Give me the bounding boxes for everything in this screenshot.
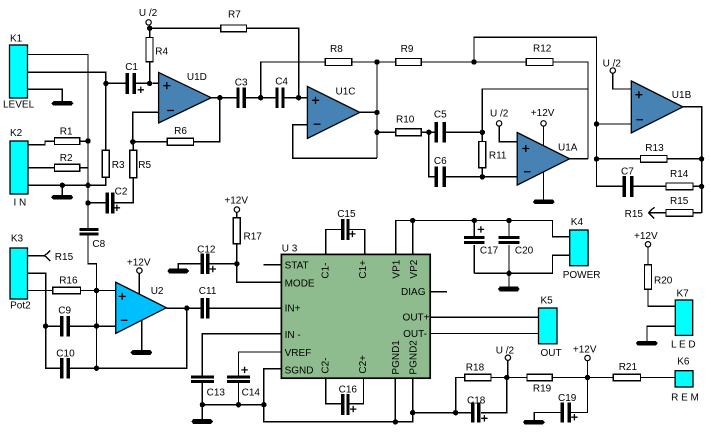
- capacitor C12: [197, 245, 237, 275]
- op-amp U2: [116, 282, 167, 333]
- power +12V U2: [127, 258, 151, 295]
- svg-text:C3: C3: [235, 78, 248, 89]
- wire C13 bottom to ground: [201, 383, 203, 419]
- wire IN- to C13: [202, 334, 281, 376]
- capacitor C7: [621, 167, 634, 197]
- wire R21 to K6: [641, 377, 676, 379]
- resistor R7: [221, 10, 247, 32]
- svg-text:U1D: U1D: [187, 72, 207, 83]
- node R13 left: [594, 156, 599, 161]
- node C1 R4: [147, 81, 152, 86]
- resistor R1: [55, 127, 80, 145]
- svg-text:SGND: SGND: [285, 365, 314, 376]
- svg-text:C16: C16: [339, 385, 358, 396]
- wire C19 left to ground: [534, 413, 560, 420]
- wire R5 bottom to C2: [114, 178, 133, 203]
- wire C6 to U1A minus: [446, 176, 517, 178]
- svg-text:C1-: C1-: [320, 262, 331, 278]
- power +12V U1A: [531, 108, 555, 146]
- svg-text:R12: R12: [533, 44, 552, 55]
- off-page arrow R15: [625, 207, 667, 220]
- wire SGND down: [264, 369, 282, 405]
- ground C12: [167, 269, 189, 274]
- wire top loop to U1B area: [474, 37, 623, 186]
- wire C16 to C2+ pin: [350, 378, 364, 403]
- op-amp U1D: [159, 72, 212, 123]
- svg-text:VP2: VP2: [409, 259, 420, 278]
- svg-text:C2: C2: [115, 187, 128, 198]
- capacitor C18: [467, 396, 488, 423]
- resistor R6: [167, 126, 193, 145]
- capacitor C5: [434, 110, 447, 143]
- node R10 C5 C6: [426, 130, 431, 135]
- capacitor C10: [46, 349, 97, 379]
- resistor R3: [102, 150, 125, 177]
- resistor R17: [233, 218, 262, 244]
- wire C18 node up to R18: [456, 378, 465, 413]
- svg-text:L E D: L E D: [671, 340, 696, 351]
- resistor R13: [641, 143, 667, 162]
- wire R18 to node: [491, 377, 527, 379]
- node R19 R21 C19: [585, 375, 590, 380]
- wire R13 to output column: [667, 158, 702, 160]
- svg-text:C1+: C1+: [358, 260, 369, 279]
- ground K2: [51, 195, 73, 200]
- svg-text:R10: R10: [396, 115, 415, 126]
- wire C6 branch down: [429, 132, 435, 177]
- wire K3 pin1 to R15 link: [28, 255, 45, 257]
- node R8 R9 U1C out: [374, 59, 379, 64]
- resistor R15: [666, 196, 693, 216]
- svg-text:R3: R3: [112, 160, 125, 171]
- svg-text:C17: C17: [480, 246, 499, 257]
- svg-text:C15: C15: [337, 209, 356, 220]
- svg-text:+12V: +12V: [127, 258, 151, 269]
- node R14 right: [699, 184, 704, 189]
- ground U2: [130, 321, 152, 355]
- wire R14 to output column: [693, 185, 702, 187]
- power U/2 top: [139, 8, 158, 25]
- resistor R18: [465, 363, 491, 381]
- svg-text:U1B: U1B: [672, 90, 692, 101]
- wire K1 pin2 to C1 node: [28, 72, 106, 83]
- wire K7 pin2 to ground: [647, 326, 675, 341]
- capacitor C13: [191, 375, 225, 398]
- node bus C2: [85, 200, 90, 205]
- capacitor C15: [337, 209, 356, 240]
- svg-text:K1: K1: [10, 34, 23, 45]
- wire U1A output: [570, 158, 588, 160]
- svg-text:K2: K2: [10, 128, 23, 139]
- wire R4 top to U/2 node: [149, 28, 151, 37]
- svg-text:PGND1: PGND1: [391, 340, 402, 375]
- node C3 C4: [258, 95, 263, 100]
- wire DIAG stub: [430, 291, 447, 293]
- wire C2- pin to C16: [326, 378, 341, 403]
- svg-text:R16: R16: [59, 276, 78, 287]
- wire C14 bottom to rail: [238, 383, 240, 405]
- svg-text:POWER: POWER: [563, 270, 601, 281]
- wire VREF to C14: [239, 352, 282, 375]
- resistor R11: [479, 142, 507, 177]
- wire node to R13: [597, 158, 641, 160]
- node R5 R6 feedback: [130, 139, 135, 144]
- node ground-line stub: [60, 183, 65, 188]
- node U2 output: [184, 305, 189, 310]
- wire cap bottom line to K4 pin2: [474, 255, 569, 273]
- node C9 right: [94, 323, 99, 328]
- node C1 input: [103, 81, 108, 86]
- svg-text:OUT+: OUT+: [403, 313, 430, 324]
- svg-text:STAT: STAT: [285, 260, 309, 271]
- power +12V R17: [224, 196, 248, 218]
- capacitor C11: [199, 286, 217, 318]
- wire R12 to U1A output vertical: [553, 62, 588, 159]
- svg-text:R19: R19: [533, 384, 552, 395]
- svg-text:R14: R14: [670, 169, 689, 180]
- svg-text:C2-: C2-: [320, 357, 331, 373]
- connector K5: [539, 296, 562, 360]
- wire branch to C5 node: [482, 89, 588, 142]
- wire C8 bottom to R16 node: [88, 235, 97, 290]
- op-amp U1B: [631, 81, 691, 133]
- resistor R21: [613, 362, 640, 381]
- node C20 rail: [506, 218, 511, 223]
- wire analog ground rail: [202, 405, 470, 422]
- wire R7 to C4 right node: [247, 28, 299, 97]
- svg-text:C11: C11: [199, 286, 217, 297]
- wire U1D output to C3: [211, 97, 236, 99]
- svg-text:C5: C5: [434, 110, 447, 121]
- op-amp U1A: [517, 133, 578, 186]
- wire K3 pin2 down to C9 left: [28, 273, 61, 368]
- svg-text:R11: R11: [489, 151, 507, 162]
- node C17 rail: [472, 218, 477, 223]
- svg-text:R18: R18: [466, 363, 485, 374]
- node U1B minus junction: [594, 121, 599, 126]
- capacitor C3: [235, 78, 248, 109]
- svg-text:VREF: VREF: [285, 348, 312, 359]
- wire C1- pin to C15: [326, 230, 341, 255]
- node SGND rail: [261, 402, 266, 407]
- svg-text:DIAG: DIAG: [401, 287, 426, 298]
- wire C18 right up to R18 R19 node: [481, 378, 507, 413]
- svg-text:R E M: R E M: [671, 393, 699, 404]
- wire STAT stub: [264, 264, 282, 266]
- wire R16 to U2 plus: [80, 290, 115, 292]
- wire stub to ground K2: [61, 185, 63, 195]
- wire C20 node to ground: [508, 273, 510, 287]
- node C9 left: [43, 323, 48, 328]
- wire C1 node to U1D plus input: [152, 82, 158, 84]
- resistor R5: [130, 142, 152, 178]
- svg-text:OUT-: OUT-: [403, 329, 427, 340]
- svg-text:I N: I N: [14, 198, 27, 209]
- wire node to MODE pin: [237, 264, 282, 282]
- capacitor C20: [499, 221, 534, 274]
- wire R1 to bus: [80, 140, 88, 142]
- svg-text:K7: K7: [677, 289, 690, 300]
- node R17 C12: [234, 261, 239, 266]
- svg-text:IN+: IN+: [285, 304, 301, 315]
- node R9 R12 top loop: [471, 59, 476, 64]
- node C13 bottom rail: [200, 402, 205, 407]
- svg-text:C12: C12: [197, 245, 216, 256]
- wire R15 to output column: [693, 212, 702, 214]
- wire C10 to U2 output: [97, 308, 187, 368]
- svg-text:U /2: U /2: [139, 8, 158, 19]
- capacitor C19: [558, 393, 578, 423]
- svg-text:MODE: MODE: [285, 278, 315, 289]
- node C4 U1C plus: [296, 95, 301, 100]
- power +12V R20: [634, 231, 658, 265]
- wire K1 pin3 to ground: [28, 89, 63, 101]
- wire R19 to R21: [552, 377, 613, 379]
- wire PGND1: [394, 378, 396, 422]
- wire C12 left to ground: [178, 264, 200, 269]
- svg-text:R1: R1: [60, 127, 73, 138]
- wire R10 to C5: [421, 131, 435, 133]
- capacitor C14: [227, 367, 260, 399]
- svg-text:C1: C1: [125, 62, 138, 73]
- svg-text:+12V: +12V: [634, 231, 658, 242]
- svg-text:R5: R5: [138, 160, 151, 171]
- svg-text:U2: U2: [151, 286, 164, 297]
- wire C11 to IN+: [209, 307, 281, 309]
- svg-text:U1C: U1C: [336, 87, 356, 98]
- svg-text:C20: C20: [515, 246, 534, 257]
- wire R6 to U1D output: [194, 98, 220, 142]
- svg-text:R9: R9: [401, 44, 414, 55]
- node R1-bus: [85, 138, 90, 143]
- capacitor C6: [434, 156, 447, 187]
- svg-text:IN -: IN -: [285, 330, 301, 341]
- capacitor C9: [46, 306, 116, 337]
- wire U1D minus input: [133, 112, 159, 141]
- svg-text:R13: R13: [645, 143, 664, 154]
- wire C4 to U1C plus: [285, 97, 308, 99]
- power U/2 U1A: [490, 109, 517, 142]
- capacitor C4: [261, 77, 289, 109]
- svg-text:+12V: +12V: [531, 108, 555, 119]
- node U1D output: [217, 95, 222, 100]
- op-amp U1C: [307, 86, 359, 138]
- power +12V R19: [573, 345, 597, 378]
- connector K1: [3, 34, 35, 111]
- capacitor C2: [88, 187, 128, 214]
- svg-text:R20: R20: [654, 276, 673, 287]
- node U1C output: [374, 110, 379, 115]
- wire U1C output vertical: [376, 62, 378, 158]
- svg-text:R6: R6: [174, 126, 187, 137]
- svg-text:K3: K3: [11, 234, 24, 245]
- node VP2 rail: [410, 218, 415, 223]
- connector K4: [563, 217, 601, 281]
- node R18 R19: [504, 375, 509, 380]
- wire node to R10: [377, 131, 396, 133]
- svg-text:C19: C19: [558, 393, 577, 404]
- node R10 branch: [374, 130, 379, 135]
- connector K6: [671, 357, 699, 404]
- node C10 right: [94, 366, 99, 371]
- wire R8 to R9: [352, 61, 396, 63]
- capacitor C8: [80, 228, 106, 250]
- svg-text:C8: C8: [92, 239, 105, 250]
- connector K7: [671, 289, 696, 351]
- resistor R4: [146, 37, 169, 61]
- ground C19: [523, 420, 545, 425]
- node C18 left: [453, 410, 458, 415]
- node C14 rail: [236, 402, 241, 407]
- power U/2 U1B: [603, 59, 632, 90]
- wire feedback node to R6: [133, 141, 168, 143]
- svg-text:+12V: +12V: [573, 345, 597, 356]
- wire U2 output to C11: [166, 307, 200, 309]
- wire U/2 node to R7: [150, 27, 221, 29]
- svg-text:C14: C14: [242, 388, 261, 399]
- resistor R2: [55, 153, 80, 171]
- svg-text:R15: R15: [670, 196, 689, 207]
- wire to U1B minus: [597, 123, 632, 125]
- svg-text:U 3: U 3: [282, 244, 298, 255]
- svg-text:R2: R2: [60, 153, 73, 164]
- ground C20: [498, 287, 520, 292]
- svg-text:C10: C10: [56, 349, 75, 360]
- svg-text:C4: C4: [275, 77, 288, 88]
- svg-text:K6: K6: [677, 357, 690, 368]
- node bus ground-line: [85, 183, 90, 188]
- svg-text:R15: R15: [55, 252, 74, 263]
- svg-text:R17: R17: [244, 232, 263, 243]
- wire R9 to R12: [421, 61, 526, 63]
- node PGND1 rail: [393, 419, 398, 424]
- wire C1 node to R3 top: [105, 83, 107, 150]
- resistor R9: [396, 44, 422, 65]
- wire PGND2: [412, 378, 414, 412]
- wire R2 to bus: [80, 167, 88, 169]
- ground K1: [51, 101, 73, 106]
- wire R17 bottom to node: [236, 244, 238, 264]
- svg-text:VP1: VP1: [392, 259, 403, 278]
- off-page link R15: [45, 251, 74, 263]
- connector K2: [10, 128, 28, 209]
- wire R4 bottom: [149, 62, 151, 84]
- power U/2 R18: [496, 346, 515, 378]
- svg-text:C9: C9: [58, 306, 71, 317]
- svg-text:R15: R15: [625, 209, 644, 220]
- wire VP1 VP2 to 12V rail: [396, 221, 570, 255]
- svg-text:R4: R4: [155, 47, 168, 58]
- svg-text:C13: C13: [207, 388, 226, 399]
- ground K7: [636, 341, 658, 346]
- node R13 right: [699, 156, 704, 161]
- node PGND2 rail: [410, 410, 415, 415]
- resistor R8: [325, 44, 351, 65]
- svg-text:K5: K5: [541, 296, 554, 307]
- wire OUT- to K5: [430, 333, 538, 335]
- wire K2 pin1 to R1: [28, 141, 55, 145]
- node C5 R11: [480, 130, 485, 135]
- svg-text:Pot2: Pot2: [10, 301, 31, 312]
- wire U1C feedback to minus: [293, 125, 377, 159]
- svg-text:R7: R7: [228, 10, 241, 21]
- wire C3 to node: [246, 97, 261, 99]
- node C6 R11 bottom: [480, 174, 485, 179]
- wire node down to C19: [571, 378, 587, 413]
- svg-text:K4: K4: [571, 217, 584, 228]
- resistor R14: [666, 169, 693, 190]
- IC U3: [281, 244, 430, 379]
- resistor R19: [527, 374, 552, 394]
- wire U1C output: [360, 111, 377, 113]
- svg-text:LEVEL: LEVEL: [3, 100, 35, 111]
- svg-text:R21: R21: [619, 362, 638, 373]
- node U/2 R7: [147, 26, 152, 31]
- svg-text:C18: C18: [467, 396, 486, 407]
- resistor R12: [526, 44, 553, 66]
- svg-text:C6: C6: [434, 156, 447, 167]
- wire C15 to C1+ pin: [350, 230, 365, 255]
- resistor R10: [396, 115, 422, 136]
- capacitor C16: [339, 385, 358, 416]
- svg-text:U /2: U /2: [496, 346, 515, 357]
- wire K2 pin3 ground line to R3 bottom: [28, 177, 106, 185]
- wire K1 pin1 to bus vertical: [28, 55, 89, 228]
- connector K3: [10, 234, 31, 312]
- node R16 C8: [94, 288, 99, 293]
- wire C7 to R14: [633, 185, 666, 187]
- svg-text:+12V: +12V: [224, 196, 248, 207]
- wire C5 to R11 top node: [446, 131, 482, 133]
- svg-text:OUT: OUT: [541, 348, 562, 359]
- wire node up to R8: [261, 62, 326, 98]
- capacitor C17: [464, 221, 499, 274]
- ground C13: [191, 419, 213, 424]
- wire U1B output: [683, 107, 702, 213]
- wire OUT+ to K5: [430, 316, 538, 318]
- node C20 bottom: [506, 271, 511, 276]
- wire K3 pin3 to R16: [28, 290, 53, 292]
- resistor R16: [53, 276, 81, 294]
- svg-text:U1A: U1A: [558, 143, 578, 154]
- ground U1A: [533, 172, 555, 204]
- svg-text:R8: R8: [330, 44, 343, 55]
- svg-text:C2+: C2+: [358, 355, 369, 374]
- svg-text:U /2: U /2: [490, 109, 509, 120]
- wire R20 to K7 pin1: [648, 289, 675, 306]
- capacitor C1: [106, 62, 150, 94]
- svg-text:C7: C7: [621, 167, 634, 178]
- wire vertical C9 C10 right: [96, 291, 98, 369]
- svg-text:PGND2: PGND2: [408, 340, 419, 375]
- resistor R20: [645, 265, 673, 290]
- wire K2 pin2 to R2: [28, 167, 55, 169]
